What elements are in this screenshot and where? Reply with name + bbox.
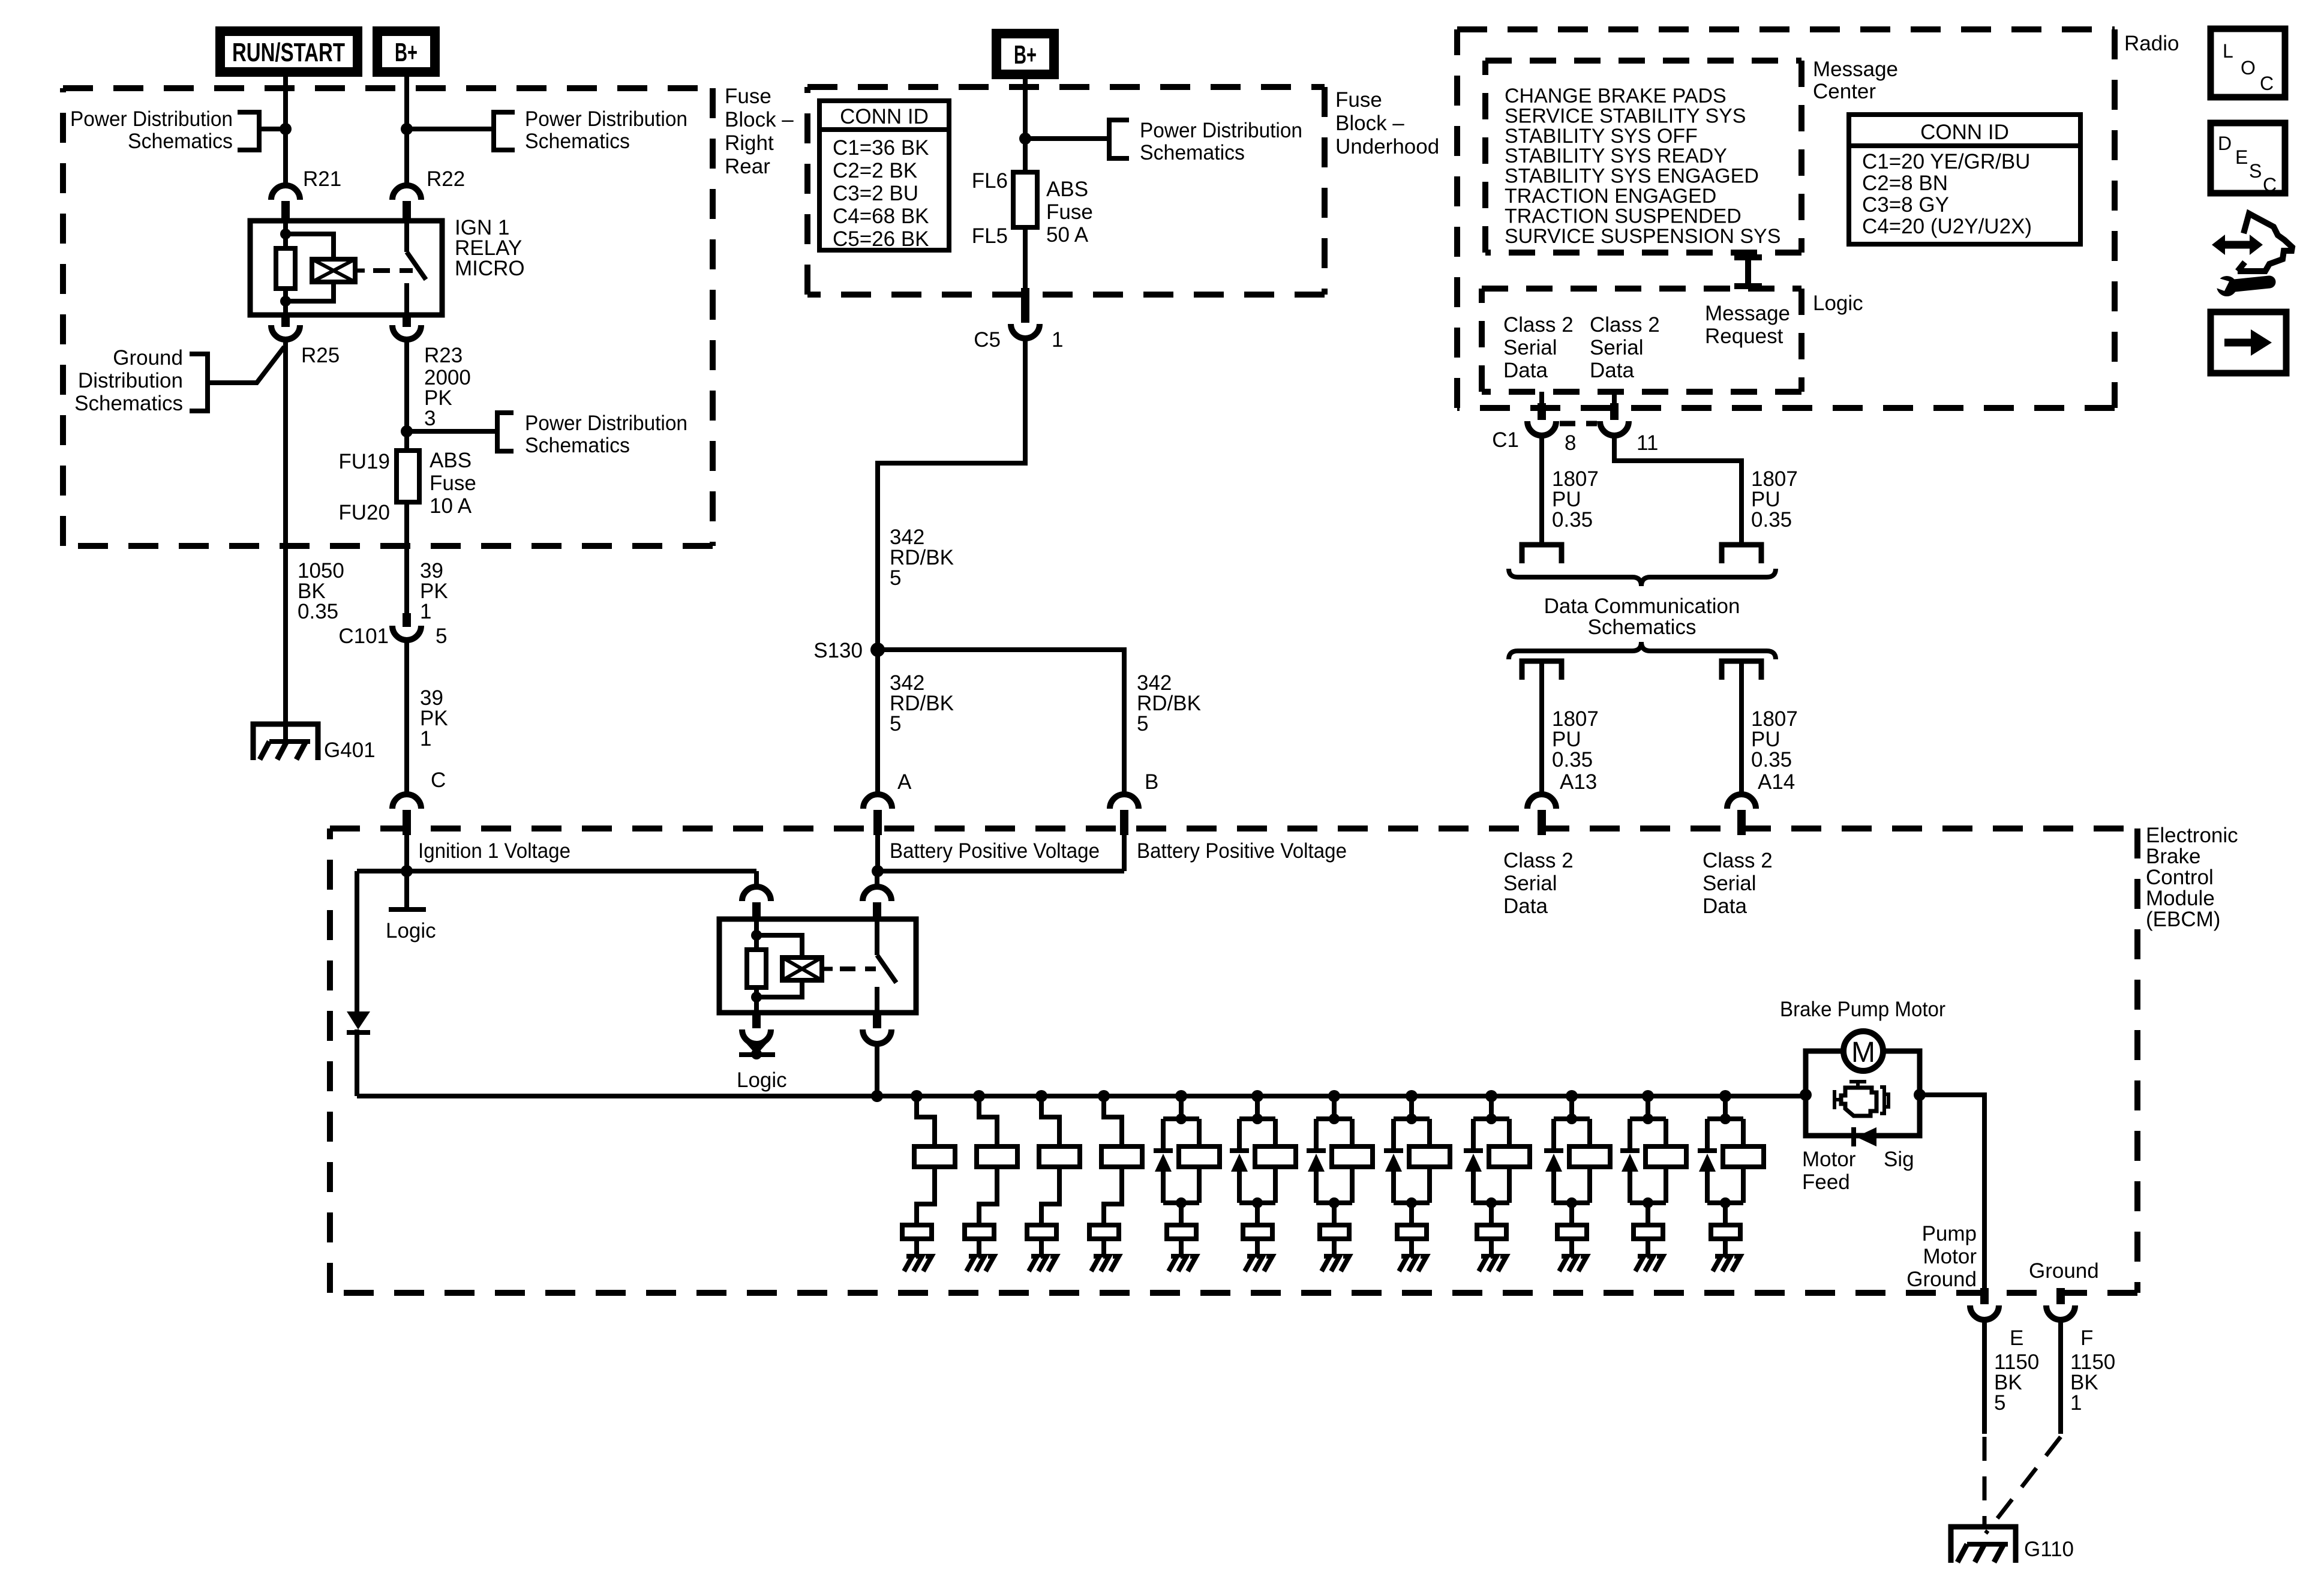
wire motor to pump motor ground pin: [1920, 1095, 1984, 1290]
relay coil loop wire: [286, 234, 334, 259]
svg-text:Fuse: Fuse: [1046, 200, 1093, 224]
svg-text:Ground: Ground: [1906, 1268, 1977, 1291]
ground G110: [1951, 1527, 2016, 1563]
svg-text:C1: C1: [1492, 428, 1519, 452]
svg-text:Logic: Logic: [737, 1068, 787, 1092]
svg-text:S130: S130: [813, 639, 863, 662]
svg-text:D: D: [2218, 133, 2232, 154]
battery positive rail: [878, 869, 1124, 873]
svg-text:Pump: Pump: [1922, 1222, 1977, 1245]
logic tap at ignition: [404, 871, 409, 908]
wire R25 to G401: [283, 339, 288, 742]
svg-text:L: L: [2223, 40, 2233, 62]
svg-text:0.35: 0.35: [1751, 508, 1792, 532]
EBCM relay resistor: [747, 950, 766, 987]
ground for valve V4: [1101, 1239, 1106, 1257]
harness connector (left upper): [1522, 545, 1562, 563]
EBCM relay output connector: [873, 1013, 881, 1028]
svg-text:Logic: Logic: [1813, 292, 1863, 315]
svg-text:SERVICE STABILITY SYS: SERVICE STABILITY SYS: [1505, 104, 1746, 127]
svg-text:0.35: 0.35: [1552, 508, 1593, 532]
node ignition logic tap: [401, 865, 413, 877]
capacitor for valve VD4: [1397, 1225, 1427, 1239]
power distribution schematics reference (underhood): [1025, 136, 1109, 141]
node EBCM relay coil bottom: [751, 992, 762, 1002]
ground for valve VD2: [1255, 1239, 1260, 1257]
svg-text:Motor: Motor: [1802, 1148, 1856, 1171]
fusible link FL6/FL5 ABS Fuse 50 A: [1013, 172, 1037, 227]
svg-text:Power Distribution: Power Distribution: [525, 412, 687, 435]
wire radio pin 11: [1612, 392, 1617, 406]
svg-text:Serial: Serial: [1503, 336, 1557, 359]
svg-text:C1=20 YE/GR/BU: C1=20 YE/GR/BU: [1862, 150, 2030, 173]
valve VD4 branch join: [1394, 1200, 1430, 1205]
capacitor for valve VD1: [1167, 1225, 1196, 1239]
icon box DESC: [2211, 123, 2285, 193]
svg-text:5: 5: [890, 566, 901, 590]
connector C5: [1021, 288, 1029, 323]
brace to data communication: [1509, 569, 1776, 586]
svg-text:TRACTION SUSPENDED: TRACTION SUSPENDED: [1505, 205, 1742, 227]
node battery rail at A: [872, 865, 884, 877]
svg-text:Schematics: Schematics: [1588, 616, 1697, 639]
svg-text:Control: Control: [2146, 866, 2214, 889]
relay switch lower contact: [404, 283, 409, 315]
svg-text:A13: A13: [1560, 770, 1597, 794]
valve VD6 branch join: [1554, 1200, 1590, 1205]
svg-text:FU19: FU19: [338, 450, 390, 473]
svg-text:STABILITY SYS OFF: STABILITY SYS OFF: [1505, 125, 1698, 148]
connector C1 pin 8: [1527, 421, 1556, 436]
svg-text:STABILITY SYS READY: STABILITY SYS READY: [1505, 145, 1727, 167]
connector C101: [403, 613, 411, 627]
valve VD5 branch join: [1473, 1200, 1509, 1205]
solenoid valve VD6: [1566, 1090, 1578, 1102]
node relay coil bottom: [280, 296, 291, 307]
svg-text:Brake Pump Motor: Brake Pump Motor: [1780, 998, 1945, 1021]
svg-text:B: B: [1145, 770, 1158, 794]
svg-text:RUN/START: RUN/START: [232, 38, 345, 67]
message center dashed box: [1485, 61, 1801, 253]
svg-text:R21: R21: [303, 167, 341, 191]
svg-text:C4=68 BK: C4=68 BK: [833, 205, 929, 228]
solenoid valve V4: [1098, 1090, 1110, 1102]
node B+ tap: [1019, 133, 1031, 145]
EBCM relay coil loop: [756, 935, 802, 957]
svg-text:5: 5: [1994, 1391, 2005, 1415]
svg-text:Electronic: Electronic: [2146, 824, 2238, 847]
svg-text:Radio: Radio: [2124, 32, 2179, 55]
ground for valve V3: [1039, 1239, 1044, 1257]
valve feed bus: [357, 1094, 1806, 1098]
svg-text:C101: C101: [338, 625, 389, 648]
capacitor for valve VD7: [1634, 1225, 1663, 1239]
svg-text:Underhood: Underhood: [1335, 135, 1439, 158]
svg-text:C3=2 BU: C3=2 BU: [833, 182, 918, 205]
wire to A14: [1739, 661, 1744, 796]
wire S130 branch B: [878, 650, 1124, 796]
svg-text:C: C: [431, 769, 446, 792]
svg-text:B+: B+: [395, 38, 418, 67]
svg-text:Ground: Ground: [2029, 1259, 2099, 1283]
svg-text:C4=20 (U2Y/U2X): C4=20 (U2Y/U2X): [1862, 215, 2032, 238]
svg-text:5: 5: [890, 712, 901, 736]
svg-text:Schematics: Schematics: [525, 434, 630, 457]
ground G401: [253, 724, 318, 760]
fuse block - underhood dashed box: [807, 87, 1325, 295]
ground for valve VD3: [1332, 1239, 1337, 1257]
svg-text:E: E: [2235, 146, 2248, 168]
svg-text:Fuse: Fuse: [725, 85, 771, 108]
EBCM relay coil branch: [754, 919, 759, 950]
wire B into EBCM: [1122, 835, 1127, 871]
connector E: [1980, 1288, 1989, 1304]
ground for valve V1: [914, 1239, 919, 1257]
valve VD1 branch join: [1163, 1200, 1199, 1205]
node on RUN/START wire: [280, 123, 292, 135]
svg-text:Class 2: Class 2: [1503, 849, 1574, 872]
svg-text:Ground: Ground: [113, 346, 183, 370]
EBCM relay coil connector: [754, 871, 759, 887]
svg-text:B+: B+: [1014, 40, 1037, 70]
svg-text:50 A: 50 A: [1046, 223, 1089, 247]
ground for valve VD5: [1489, 1239, 1494, 1257]
valve VD8 branch join: [1707, 1200, 1743, 1205]
svg-text:Battery Positive Voltage: Battery Positive Voltage: [890, 839, 1100, 863]
svg-text:Block –: Block –: [1335, 112, 1404, 135]
flyback diode for valve VD6: [1551, 1119, 1556, 1149]
motor sig diode: [1851, 1127, 1856, 1146]
svg-text:Battery Positive Voltage: Battery Positive Voltage: [1137, 839, 1347, 863]
capacitor for valve VD5: [1477, 1225, 1506, 1239]
svg-text:Center: Center: [1813, 80, 1876, 103]
flyback diode for valve VD2: [1237, 1119, 1242, 1149]
EBCM dashed box: [330, 828, 2137, 1293]
svg-text:CHANGE BRAKE PADS: CHANGE BRAKE PADS: [1505, 85, 1727, 107]
EBCM relay coil: [782, 957, 822, 980]
svg-text:1: 1: [420, 727, 431, 751]
power distribution schematics reference (fuse): [407, 429, 497, 434]
wire S130 branch A: [875, 650, 880, 796]
svg-text:Right: Right: [725, 131, 774, 155]
svg-text:Power Distribution: Power Distribution: [70, 107, 233, 131]
svg-text:CONN ID: CONN ID: [840, 105, 929, 128]
svg-text:C2=8 BN: C2=8 BN: [1862, 172, 1948, 195]
solenoid valve VD1: [1175, 1090, 1187, 1102]
wire B+ to FL6: [1023, 79, 1028, 172]
svg-text:Serial: Serial: [1703, 872, 1756, 895]
svg-text:Ignition 1 Voltage: Ignition 1 Voltage: [418, 839, 571, 863]
wire F to G110: [2058, 1319, 2063, 1434]
flyback diode for valve VD7: [1628, 1119, 1632, 1149]
svg-text:Power Distribution: Power Distribution: [525, 107, 687, 131]
wire RUN/START to R21: [283, 77, 288, 187]
flyback diode for valve VD4: [1391, 1119, 1396, 1149]
solenoid valve VD8: [1719, 1090, 1731, 1102]
node relay coil top: [280, 229, 291, 239]
svg-text:Fuse: Fuse: [1335, 88, 1382, 112]
svg-text:Fuse: Fuse: [430, 472, 476, 495]
capacitor for valve V1: [902, 1225, 932, 1239]
icon box LOC: [2211, 29, 2285, 97]
svg-text:O: O: [2241, 57, 2256, 79]
svg-text:FL5: FL5: [972, 224, 1008, 248]
svg-text:FL6: FL6: [972, 169, 1008, 193]
ground for valve VD7: [1646, 1239, 1650, 1257]
svg-text:Sig: Sig: [1884, 1148, 1914, 1171]
flyback diode for valve VD5: [1471, 1119, 1476, 1149]
svg-text:Class 2: Class 2: [1590, 313, 1660, 337]
engine icon: [1849, 1082, 1866, 1088]
relay switch fixed contact: [404, 221, 409, 252]
node bus into motor box: [1800, 1089, 1812, 1101]
valve VD2 branch join: [1239, 1200, 1275, 1205]
wire C101 to C: [404, 640, 409, 796]
flyback diode for valve VD8: [1705, 1119, 1710, 1149]
fuse FU19/FU20 ABS Fuse 10 A: [397, 451, 419, 502]
flyback diode for valve VD3: [1314, 1119, 1319, 1149]
connector C1 dashed link: [1560, 421, 1597, 427]
wire C5 to S130: [878, 337, 1025, 650]
svg-text:8: 8: [1565, 431, 1576, 455]
svg-text:E: E: [2010, 1326, 2023, 1350]
svg-text:3: 3: [424, 407, 436, 430]
svg-text:Data: Data: [1503, 359, 1548, 382]
icon box arrow: [2211, 312, 2286, 373]
svg-text:Class 2: Class 2: [1703, 849, 1773, 872]
svg-text:1: 1: [1052, 328, 1063, 352]
svg-text:Schematics: Schematics: [128, 130, 233, 153]
harness connector (left lower): [1522, 661, 1562, 680]
wire E to G110: [1982, 1319, 1987, 1434]
svg-text:Schematics: Schematics: [525, 130, 630, 153]
svg-text:G110: G110: [2024, 1538, 2074, 1561]
svg-text:0.35: 0.35: [1751, 748, 1792, 772]
svg-text:0.35: 0.35: [1552, 748, 1593, 772]
wire A into EBCM: [875, 835, 880, 871]
svg-text:C2=2 BK: C2=2 BK: [833, 159, 917, 182]
svg-text:5: 5: [436, 625, 447, 648]
svg-text:G401: G401: [324, 739, 376, 762]
svg-text:Rear: Rear: [725, 155, 770, 178]
wire B+ to R22: [404, 77, 409, 187]
svg-text:10 A: 10 A: [430, 494, 472, 518]
relay coil linkage dashes: [355, 269, 365, 273]
relay coil: [312, 259, 355, 282]
svg-text:11: 11: [1637, 431, 1658, 455]
relay coil branch wire: [283, 221, 288, 251]
svg-text:C1=36 BK: C1=36 BK: [833, 136, 929, 160]
capacitor for valve VD8: [1711, 1225, 1740, 1239]
svg-text:SURVICE SUSPENSION SYS: SURVICE SUSPENSION SYS: [1505, 225, 1780, 248]
svg-text:Request: Request: [1705, 325, 1783, 348]
wire ignition to bus: [355, 871, 359, 1013]
radio dashed box: [1457, 29, 2115, 408]
svg-text:Distribution: Distribution: [78, 369, 183, 392]
connector C1 pin 11: [1600, 421, 1629, 436]
svg-text:Schematics: Schematics: [74, 392, 183, 415]
terminal B+ (fuse block right rear): [373, 26, 440, 77]
solenoid valve V2: [973, 1090, 985, 1102]
svg-text:C5: C5: [974, 328, 1001, 352]
icon vehicle with arrow and wrench: [2223, 241, 2251, 249]
svg-text:Schematics: Schematics: [1140, 141, 1245, 164]
svg-text:R25: R25: [301, 344, 340, 367]
ground for valve VD8: [1723, 1239, 1728, 1257]
svg-text:CONN ID: CONN ID: [1920, 121, 2009, 144]
svg-text:FU20: FU20: [338, 501, 390, 524]
svg-text:ABS: ABS: [1046, 178, 1088, 201]
ground for valve VD4: [1409, 1239, 1414, 1257]
svg-text:Block –: Block –: [725, 108, 794, 131]
ignition 1 voltage rail: [357, 869, 756, 873]
solenoid valve VD2: [1251, 1090, 1263, 1102]
svg-text:ABS: ABS: [430, 449, 472, 472]
connector R25: [281, 315, 290, 327]
relay switch blade: [407, 252, 426, 280]
wire radio pin 8: [1539, 392, 1544, 406]
svg-text:Power Distribution: Power Distribution: [1140, 119, 1302, 142]
relay IGN 1 RELAY MICRO box: [250, 221, 442, 315]
wire FU20 to C101: [404, 502, 409, 614]
node EBCM relay coil top: [751, 930, 762, 941]
harness connector (right lower): [1722, 661, 1761, 680]
svg-text:Serial: Serial: [1590, 336, 1643, 359]
fuse block - right rear dashed box: [63, 88, 713, 546]
solenoid valve V3: [1035, 1090, 1047, 1102]
svg-text:STABILITY SYS ENGAGED: STABILITY SYS ENGAGED: [1505, 165, 1759, 188]
svg-text:Data: Data: [1703, 894, 1747, 918]
node motor box output: [1914, 1089, 1926, 1101]
capacitor for valve V2: [965, 1225, 994, 1239]
diode (ignition branch): [347, 1011, 370, 1029]
svg-text:S: S: [2249, 160, 2262, 182]
wire FL5 to C5: [1023, 227, 1028, 291]
connector F: [2056, 1288, 2065, 1304]
motor symbol M: [1843, 1031, 1883, 1071]
capacitor for valve V4: [1089, 1225, 1119, 1239]
svg-text:A: A: [897, 770, 912, 794]
svg-text:MICRO: MICRO: [455, 257, 525, 280]
svg-text:M: M: [1851, 1037, 1875, 1068]
wire to A13: [1539, 661, 1544, 796]
splice S130: [870, 643, 885, 657]
svg-text:Feed: Feed: [1802, 1170, 1850, 1194]
svg-text:Logic: Logic: [386, 919, 436, 942]
message request link: [1734, 254, 1762, 260]
svg-text:C: C: [2263, 174, 2277, 196]
valve VD7 branch join: [1630, 1200, 1666, 1205]
flyback diode for valve VD1: [1161, 1119, 1166, 1149]
relay resistor: [276, 248, 295, 289]
EBCM relay switch contacts: [875, 919, 879, 955]
solenoid valve VD4: [1406, 1090, 1418, 1102]
brace from data communication: [1509, 642, 1776, 659]
CONN ID table (underhood): [819, 101, 949, 250]
EBCM relay linkage dashes: [822, 967, 833, 971]
svg-text:Module: Module: [2146, 887, 2215, 910]
ground for valve VD6: [1569, 1239, 1574, 1257]
svg-text:5: 5: [1137, 712, 1148, 736]
terminal RUN/START: [215, 26, 362, 77]
svg-text:TRACTION ENGAGED: TRACTION ENGAGED: [1505, 185, 1716, 208]
ground for valve VD1: [1179, 1239, 1184, 1257]
svg-text:C3=8 GY: C3=8 GY: [1862, 193, 1949, 217]
wire C into EBCM: [404, 835, 409, 871]
svg-text:Motor: Motor: [1923, 1245, 1977, 1268]
svg-text:Brake: Brake: [2146, 845, 2200, 868]
svg-text:Data Communication: Data Communication: [1544, 595, 1740, 618]
capacitor for valve V3: [1027, 1225, 1056, 1239]
ground for valve V2: [977, 1239, 981, 1257]
capacitor for valve VD2: [1243, 1225, 1272, 1239]
svg-text:R22: R22: [427, 167, 465, 191]
wire pin 8 to harness: [1539, 435, 1544, 545]
solenoid valve VD5: [1485, 1090, 1497, 1102]
harness connector (right upper): [1722, 545, 1761, 563]
svg-text:0.35: 0.35: [298, 600, 338, 623]
logic tap at relay coil: [754, 1043, 759, 1053]
solenoid valve VD3: [1328, 1090, 1340, 1102]
radio logic dashed box: [1482, 289, 1801, 392]
svg-text:C: C: [2260, 73, 2274, 94]
solenoid valve V1: [911, 1090, 923, 1102]
EBCM relay switch connector: [875, 871, 879, 887]
node on B+ wire: [401, 123, 413, 135]
svg-text:A14: A14: [1758, 770, 1795, 794]
capacitor for valve VD6: [1557, 1225, 1587, 1239]
power distribution schematics reference (right): [494, 112, 515, 150]
svg-text:Message: Message: [1813, 58, 1898, 81]
solenoid valve VD7: [1642, 1090, 1654, 1102]
valve VD3 branch join: [1316, 1200, 1352, 1205]
svg-text:Message: Message: [1705, 302, 1790, 325]
svg-text:F: F: [2080, 1326, 2093, 1350]
svg-text:1: 1: [2070, 1391, 2082, 1415]
node relay output at bus: [871, 1090, 883, 1102]
svg-text:R23: R23: [424, 344, 463, 367]
wire pin 11 to harness: [1614, 435, 1742, 545]
brake pump motor box: [1806, 1051, 1920, 1136]
wire R23 to FU19: [404, 339, 409, 451]
CONN ID table (radio): [1849, 115, 2080, 244]
svg-text:(EBCM): (EBCM): [2146, 908, 2220, 931]
EBCM relay coil return connector: [752, 1013, 761, 1028]
svg-text:Data: Data: [1503, 894, 1548, 918]
capacitor for valve VD3: [1320, 1225, 1349, 1239]
svg-text:1: 1: [420, 600, 431, 623]
node fuse tap: [401, 425, 413, 437]
EBCM relay box: [719, 919, 916, 1013]
svg-text:Data: Data: [1590, 359, 1634, 382]
svg-text:C5=26 BK: C5=26 BK: [833, 227, 929, 251]
svg-text:Serial: Serial: [1503, 872, 1557, 895]
connector R23: [403, 315, 411, 327]
svg-text:Class 2: Class 2: [1503, 313, 1574, 337]
terminal B+ (fuse block underhood): [992, 29, 1059, 79]
